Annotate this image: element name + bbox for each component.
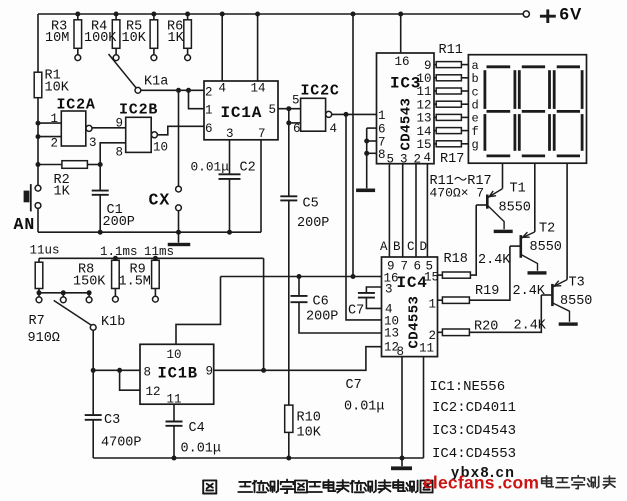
svg-text:6: 6 [293,122,301,136]
svg-text:1: 1 [205,104,213,118]
svg-text:R7: R7 [29,314,45,329]
svg-text:2.4K: 2.4K [478,253,511,268]
svg-text:IC1:NE556: IC1:NE556 [430,379,506,395]
svg-text:C7: C7 [346,378,362,393]
svg-text:f: f [472,125,479,139]
svg-text:200P: 200P [306,310,338,325]
svg-text:.com: .com [498,473,540,493]
svg-text:C4: C4 [189,421,205,436]
svg-text:7: 7 [401,260,409,274]
svg-text:11ms: 11ms [144,245,174,259]
svg-text:10: 10 [167,348,182,362]
svg-text:0.01μ: 0.01μ [181,442,222,457]
svg-text:0.01μ: 0.01μ [191,160,230,175]
svg-text:R19: R19 [475,284,499,299]
svg-text:8550: 8550 [560,294,592,309]
svg-text:3: 3 [385,283,393,297]
svg-text:B: B [393,240,401,254]
svg-text:100K: 100K [84,31,117,46]
svg-text:8: 8 [144,366,152,380]
svg-text:4: 4 [424,151,432,165]
svg-text:9: 9 [424,59,432,73]
svg-text:D: D [420,240,428,254]
svg-text:2.4K: 2.4K [514,319,547,334]
svg-text:IC2:CD4011: IC2:CD4011 [432,400,516,416]
svg-text:1.5M: 1.5M [119,275,151,290]
svg-text:6: 6 [378,123,386,137]
svg-text:11us: 11us [30,244,60,258]
svg-text:12: 12 [146,385,161,399]
svg-text:12: 12 [416,98,431,112]
svg-text:150K: 150K [73,275,106,290]
svg-text:13: 13 [416,112,431,126]
svg-text:910Ω: 910Ω [28,331,60,346]
svg-text:2: 2 [205,86,213,100]
svg-text:10: 10 [416,72,431,86]
svg-text:200P: 200P [103,215,135,230]
svg-text:T2: T2 [539,222,555,237]
svg-text:g: g [472,138,479,152]
svg-text:R17: R17 [440,152,464,167]
svg-text:1: 1 [378,109,386,123]
svg-text:14: 14 [251,82,266,96]
svg-text:C5: C5 [303,197,319,212]
svg-text:AN: AN [14,215,36,234]
svg-text:IC2C: IC2C [301,83,340,100]
svg-text:6V: 6V [560,5,583,24]
svg-text:6: 6 [205,122,213,136]
svg-text:13: 13 [384,327,399,341]
svg-text:IC1A: IC1A [221,104,263,122]
svg-text:4: 4 [219,82,227,96]
svg-text:A: A [380,240,388,254]
svg-text:d: d [472,99,479,113]
svg-text:T3: T3 [569,276,585,291]
svg-text:3: 3 [400,153,408,167]
svg-text:9: 9 [206,365,214,379]
svg-text:IC4:CD4553: IC4:CD4553 [432,446,516,462]
svg-text:7: 7 [258,127,266,141]
svg-text:1K: 1K [54,185,71,200]
svg-text:C7: C7 [348,304,364,319]
svg-text:e: e [472,112,479,126]
svg-text:R11: R11 [439,43,463,58]
svg-text:8: 8 [116,146,124,160]
svg-text:b: b [472,72,479,86]
svg-text:elecfans: elecfans [423,473,495,493]
svg-text:10M: 10M [45,31,69,46]
svg-text:11: 11 [416,85,431,99]
svg-text:8: 8 [378,148,386,162]
svg-text:1: 1 [51,112,59,126]
svg-text:8550: 8550 [530,240,562,255]
svg-text:K1b: K1b [101,315,125,330]
svg-text:T1: T1 [510,182,526,197]
svg-text:8: 8 [397,345,405,359]
svg-text:C2: C2 [240,161,256,176]
svg-text:10: 10 [153,141,168,155]
svg-text:5: 5 [269,103,277,117]
svg-text:5: 5 [292,94,300,108]
svg-text:11: 11 [419,342,434,356]
svg-text:C3: C3 [104,413,120,428]
svg-text:3: 3 [226,127,234,141]
svg-text:6: 6 [414,260,422,274]
svg-text:R18: R18 [444,252,468,267]
svg-text:R10: R10 [297,411,321,426]
svg-text:8550: 8550 [499,201,531,216]
svg-text:10K: 10K [45,81,70,96]
svg-text:2: 2 [51,137,59,151]
svg-text:16: 16 [395,55,410,69]
svg-text:10K: 10K [297,426,322,441]
svg-text:4700P: 4700P [101,436,142,451]
svg-text:5: 5 [387,153,395,167]
svg-text:15: 15 [424,271,439,285]
svg-text:1: 1 [429,298,437,312]
svg-text:C: C [407,240,415,254]
svg-text:IC2B: IC2B [119,102,158,119]
svg-text:15: 15 [416,138,431,152]
svg-text:4: 4 [330,122,338,136]
svg-text:K1a: K1a [144,75,168,90]
svg-text:R20: R20 [474,320,498,335]
svg-text:CX: CX [149,191,171,210]
svg-text:IC3:CD4543: IC3:CD4543 [432,423,516,439]
svg-text:IC1B: IC1B [158,365,198,383]
svg-text:1.1ms: 1.1ms [100,245,138,259]
svg-text:3: 3 [89,136,97,150]
svg-text:200P: 200P [297,216,329,231]
svg-text:0.01μ: 0.01μ [344,400,385,415]
svg-text:C6: C6 [313,295,329,310]
svg-text:IC2A: IC2A [57,97,96,114]
svg-text:c: c [472,85,479,99]
svg-text:10K: 10K [122,31,147,46]
svg-text:1K: 1K [168,31,185,46]
svg-text:a: a [472,59,479,73]
svg-text:2: 2 [429,329,437,343]
svg-text:2: 2 [414,153,422,167]
svg-text:CD4543: CD4543 [399,98,415,151]
svg-text:14: 14 [416,125,431,139]
svg-text:470Ω× 7: 470Ω× 7 [430,186,485,201]
